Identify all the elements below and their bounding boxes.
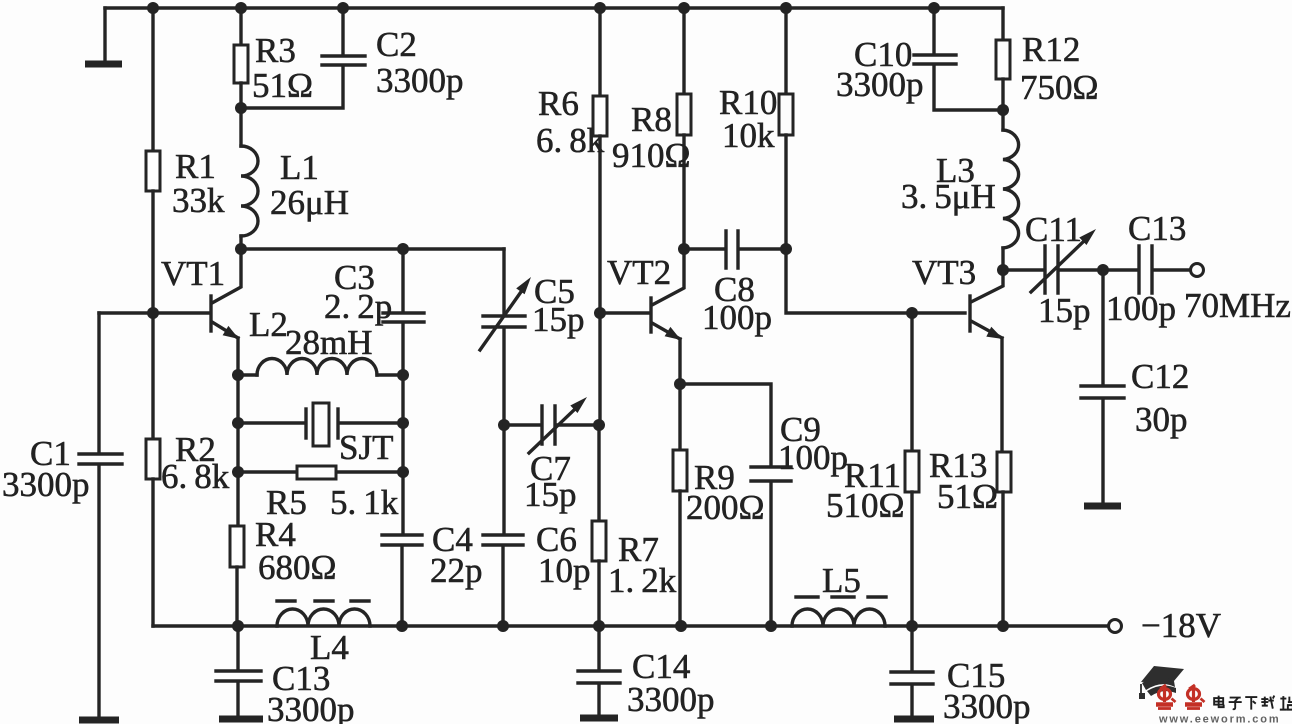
capacitor C4 [382,535,422,545]
wire R1 to base node [151,191,154,313]
label C9 [778,410,848,477]
label C8 [702,270,772,337]
wire C8 node down and right to VT3 base [786,249,965,313]
label R4 [255,515,337,587]
node C3 top [397,243,409,255]
node R9 rail [675,620,687,632]
label R12 [1020,30,1099,107]
svg-text:28mH: 28mH [285,323,373,362]
wire C10 bottom to R12 node [934,66,1003,110]
wire R12 bottom [1001,79,1004,130]
wire R8 top [682,8,685,94]
node R11 rail [906,620,918,632]
wire R3 bottom [239,83,242,146]
svg-text:R6: R6 [538,84,579,123]
wire C9 to rail [769,483,772,626]
label R9 [686,458,765,527]
label R10 [719,83,777,155]
svg-text:51Ω: 51Ω [937,477,998,516]
wire base node to C7 node [598,313,601,425]
wire R10 top [784,8,787,94]
wire C10 top [932,8,935,53]
node R5 right [397,466,409,478]
node top rail R3 [235,2,247,14]
svg-text:SJT: SJT [339,428,393,467]
logo graduation cap [1139,666,1184,699]
wire emitter to R9 [678,384,681,450]
node base VT1 [147,307,159,319]
wire C12 branch [1101,270,1104,384]
label C4 [430,520,483,590]
label L2 [249,305,373,362]
capacitor C5 (variable) [480,277,531,350]
svg-text:6. 8k: 6. 8k [536,121,605,160]
node R3/C2 [235,102,247,114]
resistor R3 [234,45,248,83]
node R13 rail [997,620,1009,632]
svg-text:3300p: 3300p [267,690,355,724]
wire R13 to rail [1001,492,1004,626]
svg-text:100p: 100p [1106,289,1176,328]
crystal SJT [238,403,403,446]
node C8 right [780,243,792,255]
wire C1 to ground [97,466,100,716]
capacitor C13 (bottom left) [216,626,263,719]
svg-text:L1: L1 [280,148,319,187]
wire VT2 base [600,311,650,314]
node C11/C12/C13 [1097,264,1109,276]
label C12 [1131,357,1189,439]
svg-text:C12: C12 [1131,357,1189,396]
svg-text:51Ω: 51Ω [252,66,313,105]
label C1 [2,434,90,504]
inductor L4 [277,601,370,626]
capacitor C3 [383,313,424,322]
transistor VT2 [651,249,684,384]
wire L3 to collector node [1001,248,1004,270]
wire L1 to collector node [239,236,242,249]
node VT2 emitter [674,378,686,390]
resistor R1 [146,151,160,191]
resistor R8 [677,94,691,135]
label C11 [1025,210,1091,330]
capacitor C14 [578,626,620,718]
capacitor C9 [751,467,791,481]
label C7 [524,449,577,514]
wire base line VT1 [99,311,209,314]
label R3 [252,31,313,105]
ground C1 [79,717,119,724]
svg-text:3300p: 3300p [836,65,924,104]
svg-text:VT3: VT3 [912,253,976,292]
node R4 bottom rail [232,620,244,632]
resistor R7 [592,521,606,561]
top supply rail [105,6,1003,9]
svg-text:www.eeworm.com: www.eeworm.com [1158,714,1280,724]
svg-text:R12: R12 [1022,30,1080,69]
wire C6 to rail [501,547,504,626]
node C9 rail [765,620,777,632]
node VT1 collector [235,243,247,255]
label R6 [536,84,605,160]
svg-text:15p: 15p [524,475,577,514]
svg-text:26μH: 26μH [270,183,349,222]
wire R4 to rail [235,567,238,626]
capacitor C8 [684,231,786,268]
logo text dianzi xiazaizhan [1214,696,1292,710]
node top rail R1 [147,2,159,14]
wire R2 to bottom rail [151,479,154,626]
svg-text:3. 5μH: 3. 5μH [901,177,996,216]
capacitor C7 (variable) [504,397,599,453]
node top rail R6 [594,2,606,14]
resistor R13 [997,452,1011,492]
label R13 [929,446,998,516]
resistor R12 [996,40,1010,79]
node SJT left [232,417,244,429]
svg-text:L2: L2 [249,305,288,344]
label C2 [376,25,464,100]
resistor R2 [146,439,160,479]
capacitor C6 [483,535,523,545]
node VT3 base (R11 top) [906,307,918,319]
wire collector rail to C5 [241,247,504,250]
label C10 [836,35,924,104]
wire C6 branch [502,425,505,533]
node top rail C2 [337,2,349,14]
node SJT right [397,417,409,429]
wire R6 top [598,8,601,96]
svg-text:3300p: 3300p [943,687,1031,724]
transistor VT1 [211,249,241,375]
node VT3 collector [997,264,1009,276]
ground (top left) [85,8,122,64]
svg-text:−18V: −18V [1141,606,1221,645]
svg-text:L5: L5 [822,561,861,600]
wire C2 top [341,8,344,54]
svg-text:C2: C2 [376,25,417,64]
wire R9 to rail [678,491,681,626]
wire C4 to rail [400,547,403,626]
svg-text:10k: 10k [722,116,775,155]
node VT2 collector [678,243,690,255]
inductor L5 [792,597,886,626]
label C13 bottom [267,659,355,724]
label C6 [536,520,591,590]
label L1 [270,148,349,222]
svg-text:VT1: VT1 [161,254,225,293]
label R7 [608,530,677,600]
node top rail C10 [928,2,940,14]
resistor R10 [779,94,793,135]
resistor R9 [673,450,687,491]
wire R8 to collector [682,135,685,249]
wire C3 top [401,249,404,311]
logo red chong char 1 [1156,685,1176,709]
inductor L3 [1003,130,1019,248]
label R8 [612,100,691,175]
label R2 [161,430,230,496]
svg-text:10p: 10p [538,551,591,590]
svg-text:200Ω: 200Ω [686,488,765,527]
terminal -18V [1109,620,1122,633]
label C13 output [1106,209,1186,328]
svg-text:5. 1k: 5. 1k [330,483,399,522]
svg-text:VT2: VT2 [607,253,671,292]
svg-text:100p: 100p [702,298,772,337]
svg-text:3300p: 3300p [2,465,90,504]
wire base node to R2 [151,313,154,439]
svg-text:33k: 33k [172,181,225,220]
capacitor C10 [914,55,956,64]
wire R11 to rail [910,492,913,626]
node top rail R8 [678,2,690,14]
svg-text:22p: 22p [430,551,483,590]
wire R3 top [239,8,242,45]
svg-text:70MHz: 70MHz [1184,286,1291,325]
capacitor C1 [79,454,122,464]
svg-text:2. 2p: 2. 2p [324,287,392,326]
label C15 [943,656,1031,724]
wire C5 branch down [502,249,505,314]
capacitor C15 [891,626,934,719]
svg-text:100p: 100p [778,438,848,477]
resistor R11 [905,451,919,492]
svg-text:910Ω: 910Ω [612,136,691,175]
node C7 left [498,419,510,431]
bottom -18V rail [153,624,1108,627]
wire R10 to C8 node [784,135,787,249]
resistor R5 [238,466,403,479]
node VT2 base [594,307,606,319]
svg-text:30p: 30p [1135,400,1188,439]
capacitor C2 [322,56,365,65]
wire C3 bottom [401,324,404,375]
svg-text:C13: C13 [1128,209,1186,248]
svg-text:680Ω: 680Ω [258,548,337,587]
wire emitter to C9 [680,384,771,465]
svg-text:15p: 15p [532,300,585,339]
label R1 [172,147,225,220]
resistor R4 [230,526,244,567]
svg-text:R8: R8 [631,100,672,139]
node R5 left [232,466,244,478]
svg-text:15p: 15p [1038,291,1091,330]
node L2 right [397,369,409,381]
label C3 [324,258,392,326]
svg-text:3300p: 3300p [627,680,715,719]
wire C1 branch [97,313,100,452]
wire C2 link [241,67,343,108]
svg-text:750Ω: 750Ω [1020,68,1099,107]
resistor R6 [593,96,607,136]
logo red chong char 2 [1185,685,1205,709]
wire C7 node to R7 [597,425,600,521]
wire R11 [910,313,913,451]
node C6 rail [497,620,509,632]
node R12/C10 [997,104,1009,116]
capacitor C11 (variable) [1003,229,1101,293]
wire C5 to C7 node [502,329,505,425]
node L2 left [232,369,244,381]
wire node chain x403 [401,375,404,533]
svg-text:C11: C11 [1025,210,1082,249]
svg-text:510Ω: 510Ω [826,486,905,525]
svg-text:R3: R3 [255,31,296,70]
inductor L1 [241,146,258,236]
label C14 [627,647,715,719]
label L3 [901,151,996,216]
wire R1 branch [151,8,154,151]
capacitor C12 [1081,386,1124,506]
inductor L2 [238,359,403,375]
wire R7 to rail [597,561,600,626]
svg-text:3300p: 3300p [376,61,464,100]
capacitor C13 (output) [1103,246,1190,293]
transistor VT3 [970,270,1003,452]
node R7 rail [593,620,605,632]
label R11 [826,456,905,525]
wire emitter chain [236,375,239,526]
terminal 70MHz [1191,264,1204,277]
node top rail R10 [780,2,792,14]
node C7 right [593,419,605,431]
label R5 [266,483,399,522]
svg-text:1. 2k: 1. 2k [608,561,677,600]
wire R6 to VT2 base node [598,136,601,313]
node C4 rail [396,620,408,632]
label C5 [532,272,585,339]
wire top rail corner to R12 [1001,8,1004,40]
svg-text:6. 8k: 6. 8k [161,457,230,496]
